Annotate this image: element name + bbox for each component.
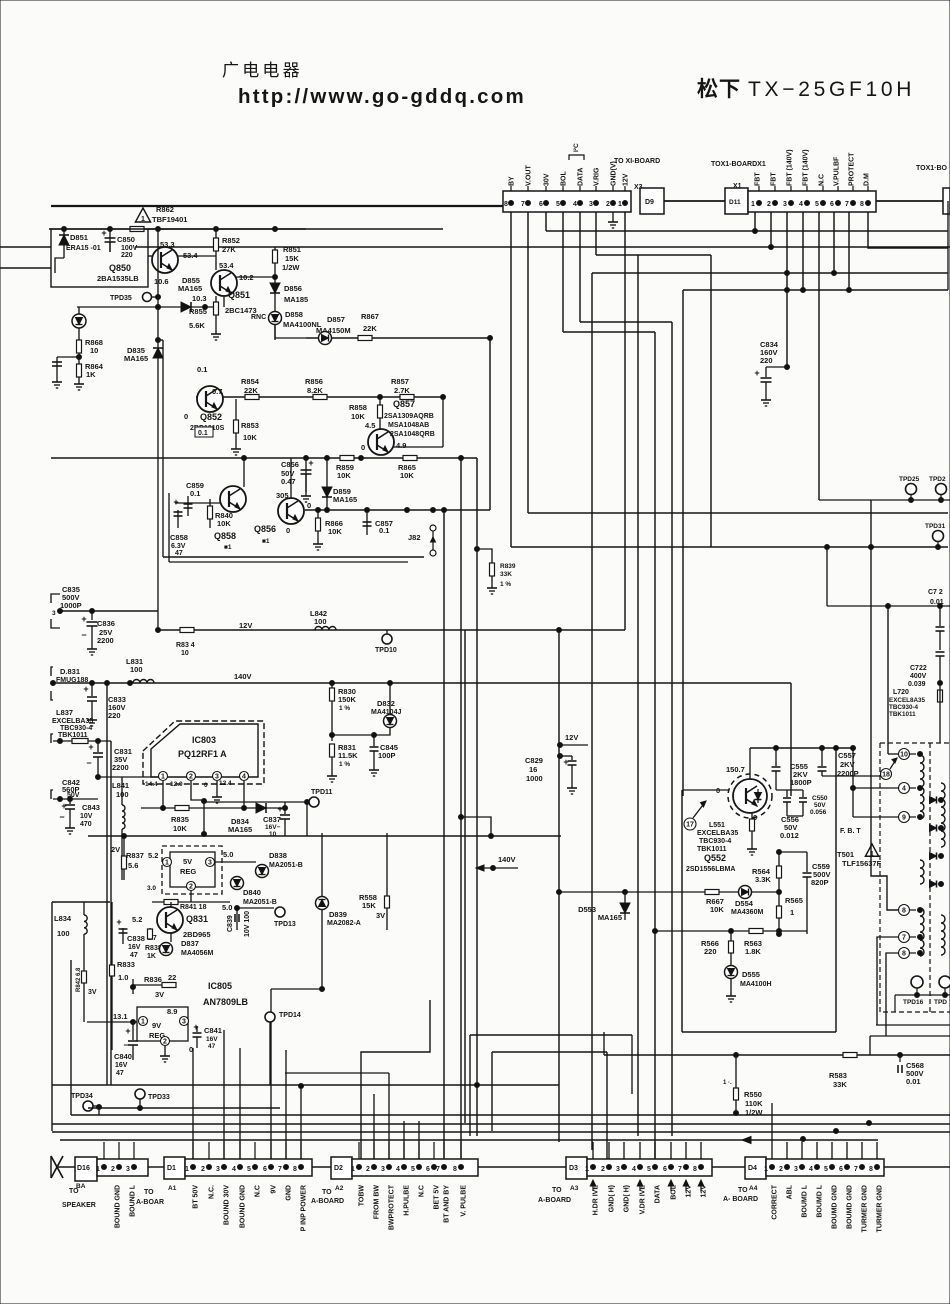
svg-text:+: + [116, 917, 121, 927]
svg-text:1: 1 [96, 1166, 100, 1173]
svg-text:TO XI-BOARD: TO XI-BOARD [614, 158, 660, 165]
svg-text:6: 6 [539, 201, 543, 208]
svg-text:0.1: 0.1 [190, 489, 200, 498]
svg-text:10V: 10V [80, 813, 93, 820]
svg-text:1000P: 1000P [60, 601, 82, 610]
svg-text:BT 50V: BT 50V [193, 1185, 200, 1209]
svg-text:C550: C550 [812, 795, 828, 802]
svg-text:D.M: D.M [864, 173, 871, 186]
svg-text:1/2W: 1/2W [282, 263, 300, 272]
svg-text:松下: 松下 [697, 77, 741, 101]
svg-text:16V−: 16V− [265, 824, 281, 831]
svg-text:4.9: 4.9 [396, 441, 406, 450]
svg-text:3: 3 [52, 610, 56, 617]
svg-text:12V: 12V [623, 173, 630, 186]
svg-text:4: 4 [902, 786, 906, 793]
svg-text:■1: ■1 [262, 538, 270, 545]
svg-text:TPD10: TPD10 [375, 647, 397, 654]
svg-text:−: − [86, 758, 91, 768]
svg-text:TO: TO [738, 1187, 748, 1194]
svg-text:0.1: 0.1 [379, 526, 389, 535]
svg-text:8: 8 [902, 908, 906, 915]
svg-text:27K: 27K [222, 245, 236, 254]
svg-text:MA185: MA185 [284, 295, 308, 304]
svg-text:TPD35: TPD35 [110, 295, 132, 302]
svg-text:8.2K: 8.2K [307, 386, 323, 395]
svg-text:10K: 10K [328, 527, 342, 536]
svg-text:I²C: I²C [573, 143, 580, 152]
svg-text:16V: 16V [206, 1036, 218, 1043]
svg-text:MA165: MA165 [333, 495, 357, 504]
svg-text:10K: 10K [400, 471, 414, 480]
svg-text:MA4360M: MA4360M [731, 909, 763, 916]
svg-text:REG: REG [180, 867, 196, 876]
svg-text:TLF15637F: TLF15637F [842, 859, 882, 868]
svg-text:D1: D1 [167, 1165, 176, 1172]
svg-text:L720: L720 [893, 689, 909, 696]
svg-text:22K: 22K [363, 324, 377, 333]
svg-text:MA165: MA165 [178, 284, 202, 293]
svg-text:17: 17 [686, 822, 694, 829]
svg-text:1 ·.: 1 ·. [723, 1080, 732, 1086]
svg-text:−: − [81, 630, 86, 640]
svg-text:3: 3 [381, 1166, 385, 1173]
svg-text:7: 7 [845, 201, 849, 208]
svg-text:R867: R867 [361, 312, 379, 321]
svg-text:TPD33: TPD33 [148, 1094, 170, 1101]
svg-text:10: 10 [900, 752, 908, 759]
svg-text:3.3K: 3.3K [755, 875, 771, 884]
svg-text:53.3: 53.3 [160, 240, 175, 249]
svg-text:8: 8 [869, 1166, 873, 1173]
svg-text:3: 3 [794, 1166, 798, 1173]
svg-text:A3: A3 [570, 1185, 579, 1192]
svg-text:BOUND GND: BOUND GND [115, 1185, 122, 1228]
svg-text:4: 4 [799, 201, 803, 208]
svg-text:GND( H): GND( H) [624, 1185, 631, 1212]
svg-text:TOX1-BOARDX1: TOX1-BOARDX1 [711, 161, 766, 168]
svg-text:5: 5 [247, 1166, 251, 1173]
svg-text:9V: 9V [152, 1021, 161, 1030]
svg-text:R862: R862 [156, 205, 174, 214]
svg-text:C856: C856 [281, 460, 299, 469]
svg-text:D832: D832 [377, 699, 395, 708]
svg-text:10K: 10K [243, 433, 257, 442]
svg-text:广电电器: 广电电器 [222, 61, 303, 80]
svg-text:TBC930-4: TBC930-4 [60, 725, 92, 732]
svg-text:PROTECT: PROTECT [849, 152, 856, 186]
svg-text:C722: C722 [910, 665, 927, 672]
svg-text:8: 8 [453, 1166, 457, 1173]
svg-text:4: 4 [232, 1166, 236, 1173]
svg-text:+: + [88, 742, 93, 752]
svg-text:+: + [173, 497, 178, 507]
svg-text:T501: T501 [837, 850, 854, 859]
svg-text:D.831: D.831 [60, 667, 80, 676]
svg-text:1.8K: 1.8K [745, 947, 761, 956]
svg-text:Q850: Q850 [109, 263, 131, 273]
svg-text:R858: R858 [349, 403, 367, 412]
svg-text:GND: GND [286, 1185, 293, 1201]
svg-text:6: 6 [426, 1166, 430, 1173]
svg-text:D840: D840 [243, 888, 261, 897]
svg-text:MA165: MA165 [228, 825, 252, 834]
svg-text:ABL: ABL [787, 1184, 794, 1199]
svg-text:+: + [193, 1022, 198, 1032]
svg-text:FBT (140V): FBT (140V) [803, 149, 810, 186]
svg-text:7: 7 [902, 935, 906, 942]
svg-text:820P: 820P [811, 878, 829, 887]
svg-text:1 %: 1 % [339, 761, 350, 768]
svg-text:MA165: MA165 [598, 913, 622, 922]
svg-text:Q856: Q856 [254, 524, 276, 534]
svg-text:TBF19401: TBF19401 [152, 215, 187, 224]
svg-text:22: 22 [168, 973, 176, 982]
svg-text:1: 1 [585, 1166, 589, 1173]
svg-text:140V: 140V [234, 672, 252, 681]
svg-text:10K: 10K [217, 519, 231, 528]
svg-text:R851: R851 [283, 245, 301, 254]
svg-text:0: 0 [307, 501, 311, 510]
svg-text:12V: 12V [565, 733, 578, 742]
svg-text:6: 6 [830, 201, 834, 208]
svg-text:10: 10 [90, 346, 98, 355]
svg-text:50V: 50V [814, 802, 826, 809]
svg-text:110K: 110K [745, 1099, 763, 1108]
svg-text:BOUND 30V: BOUND 30V [224, 1185, 231, 1225]
svg-text:GND( H): GND( H) [609, 1185, 616, 1212]
svg-text:R833: R833 [117, 960, 135, 969]
svg-text:5V: 5V [183, 857, 192, 866]
svg-text:C850: C850 [117, 235, 135, 244]
svg-text:53.4: 53.4 [219, 261, 234, 270]
svg-text:3.0: 3.0 [147, 885, 156, 892]
svg-text:7: 7 [436, 1166, 440, 1173]
svg-text:7: 7 [521, 201, 525, 208]
svg-text:4: 4 [632, 1166, 636, 1173]
svg-text:TO: TO [552, 1187, 562, 1194]
svg-text:D857: D857 [327, 315, 345, 324]
svg-text:100: 100 [116, 790, 129, 799]
svg-text:1: 1 [764, 1166, 768, 1173]
svg-text:1800P: 1800P [790, 778, 812, 787]
svg-text:2.7K: 2.7K [394, 386, 410, 395]
svg-text:D16: D16 [77, 1165, 90, 1172]
svg-text:0.47: 0.47 [281, 477, 296, 486]
svg-text:1 %: 1 % [339, 705, 350, 712]
svg-text:D3: D3 [569, 1165, 578, 1172]
svg-text:Q857: Q857 [393, 399, 415, 409]
svg-text:TPD16: TPD16 [903, 999, 924, 1006]
svg-text:2SA1048QRB: 2SA1048QRB [390, 431, 435, 438]
svg-text:TO: TO [322, 1189, 332, 1196]
svg-text:18: 18 [882, 772, 890, 779]
svg-text:TPD2: TPD2 [929, 476, 946, 483]
svg-text:R855: R855 [189, 307, 207, 316]
svg-text:+: + [308, 458, 313, 468]
svg-text:A- BOARD: A- BOARD [723, 1196, 758, 1203]
svg-text:R837: R837 [126, 851, 144, 860]
svg-text:8.9: 8.9 [167, 1007, 177, 1016]
svg-text:22K: 22K [244, 386, 258, 395]
svg-text:N.C: N.C [255, 1185, 262, 1197]
svg-text:14.4: 14.4 [145, 781, 158, 788]
svg-text:FBT (140V): FBT (140V) [787, 149, 794, 186]
svg-text:2: 2 [189, 884, 193, 891]
svg-text:R836: R836 [144, 975, 162, 984]
svg-text:305: 305 [276, 491, 289, 500]
svg-text:2: 2 [767, 201, 771, 208]
svg-text:BOUMD L: BOUMD L [802, 1184, 809, 1217]
svg-text:MA4100H: MA4100H [740, 981, 772, 988]
svg-text:C840: C840 [114, 1052, 132, 1061]
svg-text:BOL: BOL [561, 171, 568, 187]
svg-text:V.RIG: V.RIG [594, 167, 601, 186]
svg-text:Q858: Q858 [214, 531, 236, 541]
svg-text:3: 3 [126, 1166, 130, 1173]
svg-text:3: 3 [783, 201, 787, 208]
svg-text:L551: L551 [709, 822, 725, 829]
svg-text:3V: 3V [155, 990, 164, 999]
svg-text:R83 4: R83 4 [176, 642, 195, 649]
svg-text:TO: TO [144, 1189, 154, 1196]
svg-text:FROM BW: FROM BW [374, 1185, 381, 1220]
svg-text:D2: D2 [334, 1165, 343, 1172]
svg-text:1: 1 [161, 774, 165, 781]
svg-text:TPD14: TPD14 [279, 1012, 301, 1019]
svg-text:4: 4 [573, 201, 577, 208]
svg-text:D837: D837 [181, 939, 199, 948]
svg-text:D851: D851 [70, 233, 88, 242]
svg-text:6: 6 [263, 1166, 267, 1173]
svg-text:3: 3 [616, 1166, 620, 1173]
svg-text:7: 7 [854, 1166, 858, 1173]
svg-text:R842 6.8: R842 6.8 [76, 967, 82, 992]
svg-text:1: 1 [618, 201, 622, 208]
svg-text:+: + [277, 804, 282, 814]
svg-text:30V: 30V [544, 173, 551, 186]
svg-text:5.0: 5.0 [223, 850, 233, 859]
svg-text:220: 220 [760, 356, 773, 365]
svg-text:50V: 50V [67, 792, 80, 799]
svg-text:+: + [754, 368, 759, 378]
svg-text:BT AND BY: BT AND BY [444, 1185, 451, 1223]
svg-text:4: 4 [242, 774, 246, 781]
svg-text:12V: 12V [239, 621, 252, 630]
svg-text:BY: BY [509, 176, 516, 186]
svg-text:100: 100 [314, 617, 327, 626]
svg-text:D858: D858 [285, 310, 303, 319]
svg-text:10.3: 10.3 [192, 294, 207, 303]
svg-text:1: 1 [790, 908, 794, 917]
svg-text:16V: 16V [115, 1062, 128, 1069]
svg-text:6.3V: 6.3V [171, 543, 186, 550]
svg-text:0: 0 [286, 526, 290, 535]
svg-text:47: 47 [116, 1070, 124, 1077]
svg-text:3: 3 [182, 1019, 186, 1026]
svg-text:R852: R852 [222, 236, 240, 245]
svg-text:P INP POWER: P INP POWER [301, 1185, 308, 1231]
svg-text:0.01: 0.01 [906, 1077, 921, 1086]
svg-text:D839: D839 [329, 910, 347, 919]
svg-text:150K: 150K [338, 695, 357, 704]
svg-text:R550: R550 [744, 1090, 762, 1099]
svg-text:D856: D856 [284, 284, 302, 293]
svg-text:1: 1 [751, 201, 755, 208]
svg-text:13.1: 13.1 [113, 1012, 128, 1021]
svg-text:Q852: Q852 [200, 412, 222, 422]
svg-text:TOX1·BO: TOX1·BO [916, 165, 948, 172]
svg-text:7: 7 [678, 1166, 682, 1173]
svg-text:http://www.go-gddq.com: http://www.go-gddq.com [238, 85, 526, 108]
svg-text:4.5: 4.5 [365, 421, 375, 430]
svg-text:47: 47 [175, 550, 183, 557]
svg-text:R857: R857 [391, 377, 409, 386]
svg-text:0.1: 0.1 [197, 365, 207, 374]
svg-text:C839: C839 [227, 915, 234, 932]
svg-text:0.056: 0.056 [810, 809, 827, 816]
svg-text:EXCELBA35: EXCELBA35 [52, 718, 93, 725]
svg-text:IC805: IC805 [208, 981, 232, 991]
svg-text:0.1: 0.1 [198, 430, 208, 437]
svg-text:D553: D553 [578, 905, 596, 914]
svg-text:10: 10 [269, 831, 277, 838]
svg-text:16: 16 [529, 765, 537, 774]
svg-text:0.7: 0.7 [212, 387, 222, 396]
svg-text:FBT: FBT [771, 172, 778, 186]
svg-text:2: 2 [201, 1166, 205, 1173]
svg-text:D554: D554 [735, 899, 754, 908]
svg-text:R565: R565 [785, 896, 803, 905]
svg-text:TPD34: TPD34 [71, 1093, 93, 1100]
svg-text:4: 4 [809, 1166, 813, 1173]
svg-text:47: 47 [130, 952, 138, 959]
svg-text:8: 8 [860, 201, 864, 208]
svg-text:10K: 10K [337, 471, 351, 480]
svg-text:R583: R583 [829, 1071, 847, 1080]
svg-text:100V: 100V [121, 245, 138, 252]
svg-text:TPD31: TPD31 [925, 523, 946, 530]
svg-text:11.5K: 11.5K [338, 751, 358, 760]
svg-text:15K: 15K [362, 901, 376, 910]
svg-text:0: 0 [204, 782, 208, 789]
svg-text:MA4056M: MA4056M [181, 950, 213, 957]
svg-text:CORRECT: CORRECT [772, 1184, 779, 1219]
svg-text:140V: 140V [498, 855, 516, 864]
svg-text:0: 0 [184, 412, 188, 421]
svg-text:0.039: 0.039 [908, 681, 926, 688]
svg-text:1.0: 1.0 [118, 973, 128, 982]
svg-text:H.PULBE: H.PULBE [404, 1185, 411, 1216]
svg-text:5.0: 5.0 [222, 903, 232, 912]
svg-text:C841: C841 [204, 1026, 222, 1035]
svg-text:R856: R856 [305, 377, 323, 386]
svg-text:10K: 10K [351, 412, 365, 421]
svg-text:0: 0 [361, 443, 365, 452]
svg-text:1: 1 [141, 216, 145, 223]
svg-text:N.C.: N.C. [209, 1185, 216, 1199]
svg-text:A1: A1 [168, 1185, 177, 1192]
svg-text:MSA1048AB: MSA1048AB [388, 422, 429, 429]
svg-text:400V: 400V [910, 673, 927, 680]
svg-text:TURMER GND: TURMER GND [877, 1185, 884, 1232]
svg-text:10K: 10K [173, 824, 187, 833]
svg-text:5: 5 [556, 201, 560, 208]
svg-text:R835: R835 [171, 815, 189, 824]
svg-text:5: 5 [647, 1166, 651, 1173]
svg-text:2V: 2V [111, 845, 120, 854]
svg-text:2: 2 [163, 1039, 167, 1046]
svg-text:1: 1 [351, 1166, 355, 1173]
svg-text:DATA: DATA [655, 1185, 662, 1203]
svg-text:10V 100: 10V 100 [244, 911, 251, 937]
svg-text:A-BOAR: A-BOAR [136, 1199, 164, 1206]
svg-text:V.PULBF: V.PULBF [834, 156, 841, 186]
svg-text:2BA1535LB: 2BA1535LB [97, 274, 139, 283]
svg-text:C837: C837 [263, 815, 281, 824]
svg-text:EXCEL8A35: EXCEL8A35 [889, 697, 926, 704]
svg-text:6: 6 [839, 1166, 843, 1173]
svg-text:+: + [83, 684, 88, 694]
svg-text:F. B. T: F. B. T [840, 828, 861, 835]
svg-text:A-BOARD: A-BOARD [311, 1198, 344, 1205]
svg-text:J82: J82 [408, 533, 421, 542]
svg-text:TPD25: TPD25 [899, 476, 920, 483]
svg-text:1000: 1000 [526, 774, 543, 783]
svg-text:FMUG188: FMUG188 [56, 677, 88, 684]
svg-text:−: − [59, 812, 64, 822]
svg-text:12.4: 12.4 [219, 780, 232, 787]
svg-text:10K: 10K [710, 905, 724, 914]
svg-text:R839: R839 [500, 563, 516, 570]
svg-text:■1: ■1 [224, 544, 232, 551]
svg-text:3: 3 [216, 1166, 220, 1173]
svg-text:3: 3 [208, 860, 212, 867]
svg-text:2: 2 [601, 1166, 605, 1173]
svg-text:EXCELBA35: EXCELBA35 [697, 830, 738, 837]
svg-text:10: 10 [181, 650, 189, 657]
svg-text:3V: 3V [376, 911, 385, 920]
svg-text:BOUMD GND: BOUMD GND [847, 1185, 854, 1229]
svg-text:Q831: Q831 [186, 914, 208, 924]
svg-text:33K: 33K [833, 1080, 847, 1089]
svg-text:2200: 2200 [97, 636, 114, 645]
svg-text:12.0: 12.0 [170, 781, 183, 788]
svg-text:1K: 1K [86, 370, 96, 379]
svg-text:D838: D838 [269, 851, 287, 860]
svg-text:TBK1011: TBK1011 [889, 711, 916, 718]
svg-text:TPD11: TPD11 [311, 789, 333, 796]
svg-text:MA2051-B: MA2051-B [269, 862, 303, 869]
svg-text:1/2W: 1/2W [745, 1108, 763, 1117]
svg-text:N.C: N.C [819, 174, 826, 186]
svg-text:C829: C829 [525, 756, 543, 765]
svg-text:IC803: IC803 [192, 735, 216, 745]
svg-text:D555: D555 [742, 970, 760, 979]
svg-text:TPD: TPD [934, 999, 947, 1006]
svg-text:100: 100 [57, 929, 70, 938]
svg-text:BOUND GND: BOUND GND [240, 1185, 247, 1228]
svg-text:2: 2 [366, 1166, 370, 1173]
svg-text:2: 2 [189, 774, 193, 781]
svg-text:2: 2 [779, 1166, 783, 1173]
svg-text:1 %: 1 % [500, 581, 511, 588]
svg-text:220: 220 [121, 252, 133, 259]
svg-text:L841: L841 [112, 781, 129, 790]
svg-text:Q851: Q851 [228, 290, 250, 300]
svg-text:L834: L834 [54, 914, 72, 923]
svg-text:PQ12RF1 A: PQ12RF1 A [178, 749, 227, 759]
